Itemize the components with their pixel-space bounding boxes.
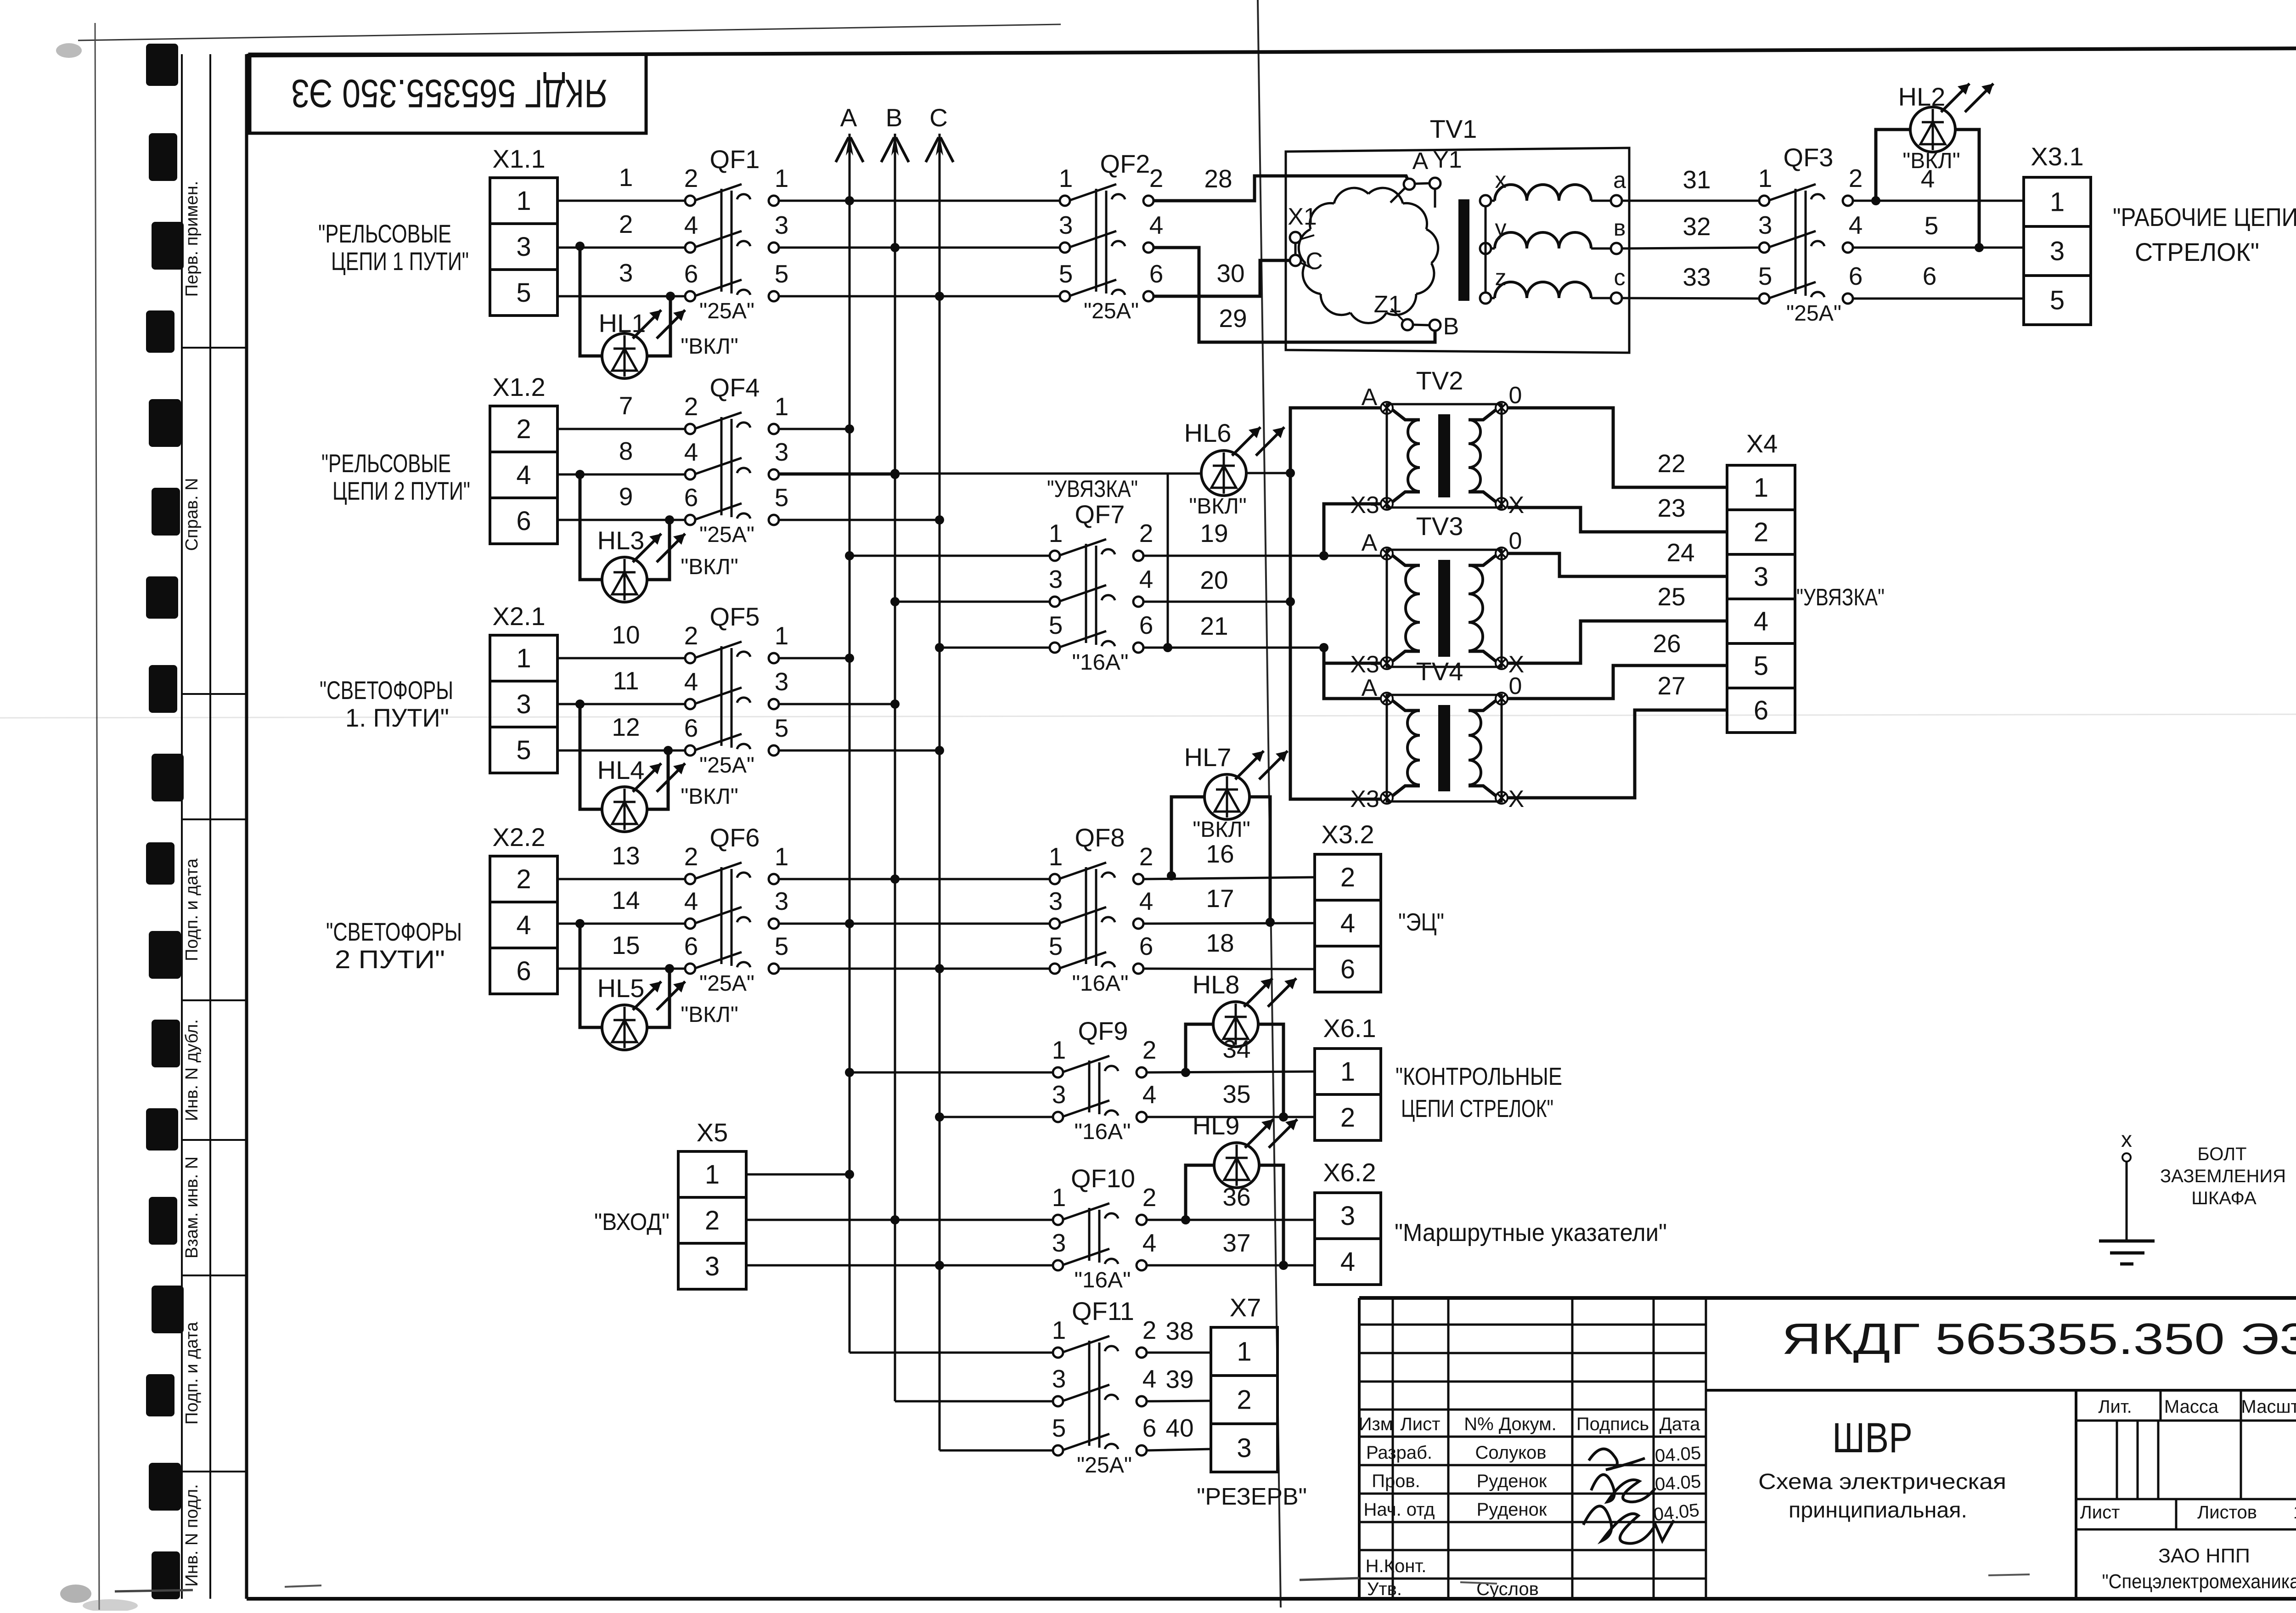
svg-text:6: 6 bbox=[1139, 932, 1154, 960]
svg-text:1: 1 bbox=[775, 842, 789, 871]
svg-text:Подп. и дата: Подп. и дата bbox=[182, 1321, 202, 1425]
svg-text:TV2: TV2 bbox=[1416, 366, 1463, 395]
svg-text:QF1: QF1 bbox=[710, 145, 760, 174]
svg-text:"СВЕТОФОРЫ: "СВЕТОФОРЫ bbox=[326, 917, 462, 946]
title block rows text bbox=[1363, 1443, 1547, 1599]
node QF5-A bbox=[845, 654, 854, 663]
lamp HL7 bbox=[1184, 743, 1288, 842]
lamp HL3 bbox=[597, 526, 738, 602]
svg-text:Схема электрическая: Схема электрическая bbox=[1758, 1470, 2006, 1494]
svg-text:Руденок: Руденок bbox=[1477, 1471, 1547, 1491]
X5 wire 2 / QF10 in bbox=[746, 1219, 1053, 1221]
svg-text:"ВКЛ": "ВКЛ" bbox=[681, 784, 738, 809]
svg-text:TV1: TV1 bbox=[1430, 114, 1477, 143]
wire 20 in (bus B to QF7) bbox=[895, 601, 1050, 603]
svg-text:5: 5 bbox=[1052, 1414, 1066, 1442]
svg-text:2 ПУТИ": 2 ПУТИ" bbox=[335, 945, 445, 974]
transformer TV2 bbox=[1350, 366, 1524, 519]
X5 wire 3 / QF10 in bbox=[746, 1264, 1053, 1267]
svg-text:4: 4 bbox=[684, 438, 698, 466]
circuit breaker QF8 bbox=[1049, 823, 1154, 996]
wire 40 bbox=[1147, 1414, 1211, 1450]
svg-text:5: 5 bbox=[516, 735, 531, 765]
svg-text:A: A bbox=[1412, 148, 1429, 175]
circuit breaker QF4 bbox=[684, 373, 789, 547]
svg-text:A: A bbox=[1362, 530, 1378, 556]
svg-text:X6.1: X6.1 bbox=[1323, 1014, 1376, 1043]
svg-text:6: 6 bbox=[516, 506, 531, 536]
connector X5 bbox=[678, 1118, 746, 1289]
svg-text:"УВЯЗКА": "УВЯЗКА" bbox=[1047, 476, 1138, 502]
cabinet grounding bolt symbol bbox=[2099, 1128, 2155, 1264]
svg-text:QF5: QF5 bbox=[710, 602, 760, 631]
label "РЕЗЕРВ" bbox=[1197, 1483, 1307, 1510]
top stamp box bbox=[250, 54, 646, 133]
svg-text:5: 5 bbox=[775, 714, 789, 742]
wire 20 bbox=[1143, 566, 1290, 602]
svg-text:ЦЕПИ СТРЕЛОК": ЦЕПИ СТРЕЛОК" bbox=[1401, 1095, 1553, 1122]
svg-text:2: 2 bbox=[516, 864, 531, 894]
svg-text:"16А": "16А" bbox=[1075, 1120, 1131, 1144]
left margin column lines bbox=[182, 54, 210, 1599]
svg-text:6: 6 bbox=[1340, 954, 1355, 984]
svg-text:Лист: Лист bbox=[2080, 1502, 2120, 1523]
svg-text:1: 1 bbox=[775, 621, 789, 650]
svg-text:z: z bbox=[1495, 265, 1507, 290]
wire 31 bbox=[1622, 165, 1759, 201]
TV4 A wire bbox=[1324, 661, 1381, 699]
label "БОЛТ ЗАЗЕМЛЕНИЯ ШКАФА" bbox=[2160, 1144, 2286, 1208]
svg-text:6: 6 bbox=[684, 932, 698, 960]
circuit label "СВЕТОФОРЫ 1 ПУТИ" bbox=[320, 676, 453, 732]
node HL5-left bbox=[575, 919, 585, 928]
svg-text:1: 1 bbox=[1049, 842, 1063, 871]
node QF9-A bbox=[845, 1068, 854, 1077]
svg-text:40: 40 bbox=[1165, 1414, 1193, 1442]
svg-text:Нач. отд: Нач. отд bbox=[1363, 1500, 1435, 1520]
svg-text:2: 2 bbox=[684, 842, 698, 871]
svg-text:"КОНТРОЛЬНЫЕ: "КОНТРОЛЬНЫЕ bbox=[1396, 1063, 1562, 1090]
wire 17 bbox=[1143, 884, 1315, 924]
X5 wire 1 to bus A bbox=[746, 1173, 850, 1176]
wire 23 bbox=[1508, 494, 1727, 532]
svg-text:1: 1 bbox=[2293, 1502, 2296, 1523]
svg-text:"25А": "25А" bbox=[1786, 301, 1841, 326]
svg-text:ЯКДГ 565355.350 Э3: ЯКДГ 565355.350 Э3 bbox=[291, 71, 608, 115]
wire 38 bbox=[1147, 1317, 1211, 1353]
phase bus A bbox=[836, 103, 863, 1353]
left margin dividers bbox=[182, 348, 247, 1472]
svg-text:6: 6 bbox=[1849, 262, 1863, 290]
svg-text:Инв. N подл.: Инв. N подл. bbox=[182, 1484, 202, 1586]
company name bbox=[2102, 1545, 2296, 1593]
svg-text:N% Докум.: N% Докум. bbox=[1464, 1414, 1556, 1434]
wire 26 bbox=[1508, 629, 1727, 699]
svg-text:"РЕЛЬСОВЫЕ: "РЕЛЬСОВЫЕ bbox=[318, 219, 451, 248]
HL3 connection wires bbox=[580, 474, 670, 580]
svg-text:0: 0 bbox=[1509, 673, 1522, 699]
svg-text:в: в bbox=[1614, 215, 1626, 241]
node QF4-C bbox=[935, 515, 944, 525]
svg-text:5: 5 bbox=[775, 259, 789, 288]
HL4 connection wires bbox=[580, 704, 668, 809]
svg-text:17: 17 bbox=[1206, 884, 1234, 913]
node HL3-left bbox=[575, 470, 585, 479]
wire 16 bbox=[1143, 840, 1315, 879]
svg-text:24: 24 bbox=[1666, 538, 1694, 567]
svg-text:"СВЕТОФОРЫ: "СВЕТОФОРЫ bbox=[320, 676, 453, 705]
svg-text:БОЛТ: БОЛТ bbox=[2197, 1144, 2246, 1164]
svg-text:1: 1 bbox=[1052, 1316, 1066, 1344]
title block right grid bbox=[2076, 1390, 2296, 1599]
wire 37 bbox=[1147, 1229, 1315, 1265]
wire 10 wire 11 wire 12 from X2.1 to QF5 bbox=[557, 620, 685, 750]
svg-text:"ВКЛ": "ВКЛ" bbox=[681, 1003, 738, 1027]
svg-text:3: 3 bbox=[775, 887, 789, 915]
node HL7-17 bbox=[1266, 918, 1275, 927]
svg-text:3: 3 bbox=[1237, 1433, 1251, 1463]
label "ВХОД" bbox=[594, 1209, 670, 1235]
svg-text:5: 5 bbox=[1049, 611, 1063, 639]
node HL9-36 bbox=[1181, 1215, 1190, 1224]
svg-text:6: 6 bbox=[684, 483, 698, 512]
svg-text:2: 2 bbox=[1237, 1385, 1251, 1415]
circuit breaker QF6 bbox=[684, 823, 789, 996]
wire 6 bbox=[1853, 262, 2024, 299]
signatures (handwritten) bbox=[1583, 1449, 1674, 1544]
svg-text:14: 14 bbox=[612, 886, 640, 914]
svg-text:2: 2 bbox=[1340, 863, 1355, 892]
wire 39 bbox=[1147, 1365, 1211, 1401]
lamp HL8 bbox=[1193, 970, 1296, 1047]
svg-text:4: 4 bbox=[684, 887, 698, 915]
svg-text:Изм: Изм bbox=[1359, 1414, 1393, 1434]
svg-text:2: 2 bbox=[684, 164, 698, 192]
svg-text:2: 2 bbox=[1340, 1103, 1355, 1133]
svg-text:25: 25 bbox=[1657, 582, 1685, 611]
binder holes (scan artifacts) bbox=[146, 44, 184, 1599]
svg-text:2: 2 bbox=[1142, 1036, 1157, 1064]
svg-text:1: 1 bbox=[516, 643, 531, 673]
title subtitle bbox=[1758, 1470, 2006, 1523]
circuit breaker QF11 bbox=[1052, 1297, 1157, 1478]
label "УВЯЗКА" right bbox=[1796, 584, 1885, 611]
svg-text:6: 6 bbox=[684, 714, 698, 742]
svg-text:2: 2 bbox=[684, 621, 698, 650]
svg-text:3: 3 bbox=[1052, 1365, 1066, 1393]
svg-text:X1.2: X1.2 bbox=[492, 372, 545, 401]
node QF6-A bbox=[845, 919, 854, 928]
svg-text:8: 8 bbox=[619, 437, 633, 465]
label "УВЯЗКА" left bbox=[1047, 476, 1138, 502]
svg-text:QF9: QF9 bbox=[1078, 1016, 1128, 1045]
svg-text:ЦЕПИ 2 ПУТИ": ЦЕПИ 2 ПУТИ" bbox=[332, 476, 470, 505]
TV2 A feed vertical bbox=[1290, 408, 1381, 799]
label "КОНТРОЛЬНЫЕ ЦЕПИ СТРЕЛОК" bbox=[1396, 1063, 1562, 1122]
QF11 input wires from buses bbox=[850, 1353, 1053, 1450]
wire 19 in (bus A to QF7) bbox=[850, 555, 1050, 557]
svg-text:Лист: Лист bbox=[1401, 1414, 1441, 1434]
svg-text:Лит.: Лит. bbox=[2098, 1397, 2132, 1417]
svg-text:1: 1 bbox=[1059, 164, 1073, 192]
svg-text:1: 1 bbox=[1052, 1183, 1066, 1212]
node HL9-37 bbox=[1279, 1261, 1288, 1270]
svg-text:4: 4 bbox=[1142, 1080, 1157, 1109]
svg-text:X5: X5 bbox=[697, 1118, 728, 1147]
svg-text:3: 3 bbox=[775, 211, 789, 239]
svg-text:4: 4 bbox=[516, 910, 531, 940]
svg-text:X1: X1 bbox=[1288, 203, 1317, 230]
left margin vertical labels bbox=[182, 181, 202, 1587]
node HL8-35 bbox=[1279, 1112, 1288, 1122]
svg-text:6: 6 bbox=[1149, 259, 1164, 288]
svg-text:5: 5 bbox=[2050, 286, 2065, 316]
wire 33 bbox=[1622, 263, 1759, 299]
svg-text:1: 1 bbox=[1758, 164, 1773, 192]
wire 16 row (QF6 out / QF8 in) bbox=[779, 878, 1050, 880]
QF1 output wires to buses and QF2 bbox=[779, 201, 1060, 296]
svg-text:38: 38 bbox=[1165, 1317, 1193, 1345]
node QF5-C bbox=[935, 746, 944, 755]
svg-text:0: 0 bbox=[1509, 528, 1522, 554]
svg-text:4: 4 bbox=[684, 211, 698, 239]
svg-text:1: 1 bbox=[775, 164, 789, 192]
wire 4 bbox=[1853, 164, 2024, 201]
svg-text:2: 2 bbox=[1142, 1316, 1157, 1344]
svg-text:Листов: Листов bbox=[2197, 1502, 2257, 1523]
connector X3.1 bbox=[2024, 142, 2091, 325]
svg-text:"РАБОЧИЕ ЦЕПИ: "РАБОЧИЕ ЦЕПИ bbox=[2113, 203, 2296, 231]
svg-text:"РЕЛЬСОВЫЕ: "РЕЛЬСОВЫЕ bbox=[321, 449, 451, 478]
document number text bbox=[1782, 1314, 2296, 1364]
svg-text:"25А": "25А" bbox=[699, 523, 754, 547]
node HL6-21 bbox=[1163, 643, 1172, 652]
svg-text:4: 4 bbox=[1139, 565, 1154, 593]
svg-text:Инв. N дубл.: Инв. N дубл. bbox=[182, 1019, 202, 1121]
svg-text:19: 19 bbox=[1200, 519, 1228, 547]
svg-text:HL2: HL2 bbox=[1898, 82, 1946, 111]
svg-text:5: 5 bbox=[775, 483, 789, 512]
svg-text:3: 3 bbox=[1049, 887, 1063, 915]
HL1 connection wires bbox=[580, 246, 670, 356]
circuit breaker QF2 bbox=[1059, 149, 1164, 323]
svg-text:3: 3 bbox=[1052, 1080, 1066, 1109]
svg-text:X1.1: X1.1 bbox=[492, 144, 545, 173]
svg-text:Взам. инв. N: Взам. инв. N bbox=[182, 1156, 202, 1258]
svg-text:6: 6 bbox=[1754, 696, 1768, 726]
svg-text:04.05: 04.05 bbox=[1654, 1472, 1702, 1495]
svg-text:Утв.: Утв. bbox=[1367, 1579, 1402, 1599]
svg-text:1: 1 bbox=[1754, 473, 1768, 503]
phase bus B bbox=[881, 103, 909, 1401]
node HL6-vert bbox=[1286, 468, 1295, 478]
wire 32 bbox=[1622, 212, 1759, 248]
svg-text:4: 4 bbox=[516, 460, 531, 490]
svg-text:3: 3 bbox=[1059, 211, 1073, 239]
svg-text:"ВКЛ": "ВКЛ" bbox=[1902, 149, 1960, 173]
svg-text:"ВКЛ": "ВКЛ" bbox=[681, 555, 738, 579]
svg-text:A: A bbox=[840, 103, 857, 132]
node QF7-A bbox=[845, 551, 854, 560]
phase bus C bbox=[926, 103, 953, 1450]
svg-text:3: 3 bbox=[705, 1252, 720, 1281]
svg-text:Н.Конт.: Н.Конт. bbox=[1366, 1556, 1427, 1576]
node TV2X3-19 bbox=[1319, 551, 1328, 560]
svg-text:4: 4 bbox=[1849, 211, 1863, 239]
node QF1-C bbox=[935, 292, 944, 301]
lamp HL5 bbox=[597, 974, 738, 1050]
svg-text:Справ. N: Справ. N bbox=[182, 478, 202, 551]
svg-text:СТРЕЛОК": СТРЕЛОК" bbox=[2135, 237, 2259, 266]
svg-text:13: 13 bbox=[612, 841, 640, 870]
svg-text:"ВКЛ": "ВКЛ" bbox=[1189, 494, 1247, 519]
title "ШВР" bbox=[1832, 1415, 1913, 1461]
svg-text:X2.2: X2.2 bbox=[492, 823, 545, 852]
lamp HL1 bbox=[599, 309, 738, 378]
svg-text:23: 23 bbox=[1657, 494, 1685, 522]
TV2 X3 wire bbox=[1324, 504, 1381, 556]
node QF4-A bbox=[845, 424, 854, 434]
svg-text:2: 2 bbox=[1139, 519, 1154, 547]
svg-text:"ЭЦ": "ЭЦ" bbox=[1398, 908, 1444, 936]
circuit breaker QF3 bbox=[1758, 143, 1863, 326]
HL8 connection wires bbox=[1186, 1024, 1283, 1117]
svg-text:HL4: HL4 bbox=[597, 756, 645, 784]
mirrored document number bbox=[291, 71, 608, 115]
svg-text:5: 5 bbox=[1925, 211, 1939, 240]
svg-text:1: 1 bbox=[1049, 519, 1063, 547]
node HL4-left bbox=[575, 699, 585, 709]
wire 18 bbox=[1143, 929, 1315, 969]
svg-text:"16А": "16А" bbox=[1072, 971, 1129, 996]
paper edge line (scan) bbox=[78, 24, 1061, 40]
svg-text:1: 1 bbox=[619, 163, 633, 192]
svg-text:1: 1 bbox=[1237, 1337, 1251, 1367]
svg-text:3: 3 bbox=[775, 438, 789, 466]
svg-text:04.05: 04.05 bbox=[1654, 1443, 1702, 1466]
svg-text:C: C bbox=[1306, 248, 1323, 275]
node QF6-B bbox=[890, 874, 900, 884]
svg-text:Суслов: Суслов bbox=[1476, 1579, 1539, 1599]
svg-text:Подп. и дата: Подп. и дата bbox=[182, 858, 202, 961]
HL6 right wire bbox=[1246, 472, 1290, 474]
svg-text:X6.2: X6.2 bbox=[1323, 1158, 1376, 1187]
svg-text:6: 6 bbox=[684, 259, 698, 288]
lamp HL4 bbox=[597, 756, 738, 832]
svg-text:"25А": "25А" bbox=[1077, 1453, 1132, 1478]
svg-text:x: x bbox=[2121, 1128, 2132, 1152]
transformer TV3 bbox=[1350, 512, 1524, 678]
svg-text:HL1: HL1 bbox=[599, 309, 646, 338]
svg-text:12: 12 bbox=[612, 713, 640, 741]
svg-text:"ВКЛ": "ВКЛ" bbox=[681, 334, 738, 359]
svg-text:Z1: Z1 bbox=[1374, 291, 1402, 318]
wire 35 bbox=[1147, 1080, 1315, 1117]
svg-text:принципиальная.: принципиальная. bbox=[1789, 1498, 1967, 1523]
svg-text:3: 3 bbox=[1049, 565, 1063, 593]
svg-text:ЗАЗЕМЛЕНИЯ: ЗАЗЕМЛЕНИЯ bbox=[2160, 1166, 2286, 1186]
wire 7 wire 8 wire 9 from X1.2 to QF4 bbox=[557, 391, 685, 520]
label "Маршрутные указатели" bbox=[1395, 1219, 1667, 1246]
connector X2.2 bbox=[490, 823, 557, 994]
svg-text:35: 35 bbox=[1222, 1080, 1250, 1108]
svg-text:Y1: Y1 bbox=[1433, 147, 1462, 173]
svg-text:18: 18 bbox=[1206, 929, 1234, 957]
svg-text:"ВКЛ": "ВКЛ" bbox=[1193, 818, 1250, 842]
literature mass scale headers bbox=[2098, 1397, 2296, 1417]
svg-text:X3.1: X3.1 bbox=[2031, 142, 2083, 171]
svg-text:2: 2 bbox=[516, 414, 531, 444]
svg-text:11: 11 bbox=[613, 666, 639, 695]
svg-text:1. ПУТИ": 1. ПУТИ" bbox=[345, 703, 449, 732]
svg-text:HL6: HL6 bbox=[1184, 418, 1232, 447]
node QF4-B bbox=[890, 470, 900, 479]
svg-text:X2.1: X2.1 bbox=[492, 602, 545, 631]
HL5 connection wires bbox=[580, 924, 670, 1027]
svg-text:"Спецэлектромеханика": "Спецэлектромеханика" bbox=[2102, 1570, 2296, 1593]
svg-text:7: 7 bbox=[619, 391, 633, 420]
HL6 tap to wire 21 bbox=[1167, 474, 1169, 648]
svg-text:5: 5 bbox=[1754, 651, 1768, 681]
wire 35 in (bus C to QF9) bbox=[940, 1116, 1053, 1118]
svg-text:HL5: HL5 bbox=[597, 974, 645, 1003]
svg-text:ЯКДГ 565355.350 Э3: ЯКДГ 565355.350 Э3 bbox=[1782, 1314, 2296, 1364]
svg-text:TV4: TV4 bbox=[1416, 657, 1463, 686]
svg-text:3: 3 bbox=[775, 667, 789, 696]
wire 25 bbox=[1508, 582, 1727, 663]
wire 13 wire 14 wire 15 from X2.2 to QF6 bbox=[557, 841, 685, 969]
wire 18 row (QF6 out / QF8 in) bbox=[779, 968, 1050, 970]
svg-text:"25А": "25А" bbox=[699, 971, 754, 996]
node TV-20 bbox=[1286, 597, 1295, 606]
svg-text:3: 3 bbox=[1758, 211, 1773, 239]
svg-text:6: 6 bbox=[1139, 611, 1154, 639]
svg-text:6: 6 bbox=[1923, 262, 1937, 290]
lamp HL6 bbox=[1184, 418, 1284, 519]
scan smudges bottom bbox=[115, 1574, 2030, 1591]
node HL5-right bbox=[665, 964, 674, 973]
svg-text:"Маршрутные указатели": "Маршрутные указатели" bbox=[1395, 1219, 1667, 1246]
svg-text:QF2: QF2 bbox=[1100, 149, 1150, 178]
wire 34 bbox=[1147, 1035, 1315, 1072]
svg-text:5: 5 bbox=[775, 932, 789, 960]
svg-text:4: 4 bbox=[1340, 908, 1355, 938]
circuit breaker QF9 bbox=[1052, 1016, 1157, 1144]
wire 30 bbox=[1154, 259, 1290, 296]
wire 34 in (bus A to QF9) bbox=[850, 1072, 1053, 1074]
svg-text:4: 4 bbox=[1139, 887, 1154, 915]
HL9 connection wires bbox=[1186, 1165, 1283, 1265]
svg-text:TV3: TV3 bbox=[1416, 512, 1463, 541]
svg-text:ЗАО НПП: ЗАО НПП bbox=[2158, 1545, 2250, 1567]
svg-text:32: 32 bbox=[1683, 212, 1711, 241]
svg-text:5: 5 bbox=[1059, 259, 1073, 288]
title block small headers bbox=[1359, 1414, 1700, 1434]
label "ЭЦ" bbox=[1398, 908, 1444, 936]
circuit label "РЕЛЬСОВЫЕ ЦЕПИ 2 ПУТИ" bbox=[321, 449, 470, 505]
svg-text:4: 4 bbox=[1142, 1365, 1157, 1393]
svg-text:2: 2 bbox=[619, 210, 633, 238]
svg-text:ШКАФА: ШКАФА bbox=[2191, 1188, 2257, 1208]
svg-text:B: B bbox=[1443, 313, 1459, 340]
svg-text:2: 2 bbox=[1849, 164, 1863, 192]
svg-text:Масса: Масса bbox=[2164, 1397, 2219, 1417]
node HL3-right bbox=[665, 515, 674, 525]
connector X7 bbox=[1211, 1293, 1277, 1472]
svg-text:QF4: QF4 bbox=[710, 373, 760, 402]
HL7 connection wires bbox=[1171, 797, 1270, 922]
svg-text:4: 4 bbox=[1754, 607, 1768, 637]
